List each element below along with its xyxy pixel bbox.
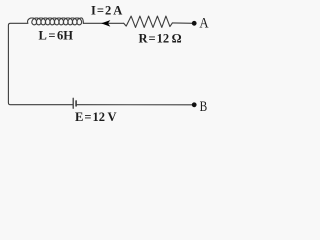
svg-text:L=6H: L=6H bbox=[39, 29, 74, 43]
node B dot bbox=[192, 102, 197, 107]
svg-text:A: A bbox=[199, 16, 209, 32]
svg-text:B: B bbox=[200, 99, 208, 115]
wire: coil to resistor (top middle) bbox=[83, 22, 123, 24]
svg-text:I=2A: I=2A bbox=[91, 3, 122, 17]
wire: battery to node B bbox=[77, 104, 194, 106]
svg-text:R=12Ω: R=12Ω bbox=[139, 32, 182, 46]
battery E plate short (negative) bbox=[75, 101, 77, 106]
battery E plate long (positive) bbox=[72, 98, 74, 108]
svg-text:E=12V: E=12V bbox=[75, 110, 117, 124]
wire left side (top-left corner, left vertical, bottom-left corner) bbox=[8, 23, 72, 104]
wire: resistor to node A bbox=[172, 22, 194, 24]
resistor R1 zigzag bbox=[124, 16, 173, 27]
current arrow on top wire bbox=[102, 21, 109, 26]
inductor L1 coil bbox=[27, 18, 83, 25]
node A dot bbox=[192, 21, 197, 26]
